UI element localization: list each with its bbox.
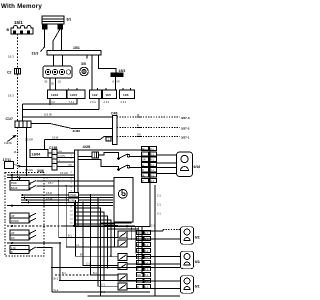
- svg-text:C-1: C-1: [145, 274, 150, 277]
- svg-text:3/5: 3/5: [81, 62, 86, 66]
- svg-text:6/19: 6/19: [195, 236, 200, 240]
- relay contact 6: [118, 283, 127, 290]
- wire 17/11 to C158 pin4: [21, 165, 52, 167]
- wire to motor 6/17 b: [127, 288, 181, 290]
- svg-text:0.5 GN: 0.5 GN: [25, 169, 33, 172]
- vertical drop x75.6: [76, 200, 118, 256]
- svg-text:C-1: C-1: [145, 262, 150, 265]
- vertical drop x58.7: [59, 181, 118, 238]
- switch top feeds: [11, 175, 13, 181]
- svg-text:13/64: 13/64: [32, 153, 41, 157]
- wire common y226: [7, 225, 62, 227]
- svg-text:11/6: 11/6: [123, 93, 129, 97]
- svg-text:3/27-3: 3/27-3: [181, 116, 190, 120]
- wire fuse 11/16 down: [49, 99, 51, 105]
- svg-text:R: R: [137, 244, 139, 247]
- svg-text:0.5GN: 0.5GN: [69, 194, 76, 197]
- svg-text:F14/30: F14/30: [4, 142, 12, 145]
- svg-text:C1/7: C1/7: [6, 117, 13, 121]
- junction fuse 11/16 drop: [49, 103, 51, 105]
- wires under inner rect: [101, 222, 132, 224]
- motor 6/19 body: [181, 227, 194, 245]
- module output label text: [142, 148, 155, 183]
- wire switch to fuse 11/16: [49, 78, 51, 90]
- vertical drop x66.2: [66, 186, 118, 247]
- fuse pin numbers: [49, 101, 127, 104]
- svg-text:2 3 4: 2 3 4: [90, 101, 96, 104]
- bus pin tick: [86, 55, 88, 59]
- bus bar 15/1: [47, 51, 101, 56]
- seat switch 3: [10, 230, 29, 240]
- dashed stub below C1/7: [17, 128, 19, 182]
- svg-text:B-1: B-1: [93, 272, 97, 275]
- switch 2 arm b: [30, 218, 37, 221]
- ignition switch contacts: [45, 69, 70, 74]
- switch 1 arm b: [30, 186, 37, 189]
- connector C1/7 body: [15, 121, 31, 128]
- wire label column boxes: [137, 231, 151, 289]
- wire C1/7 riser: [22, 104, 24, 121]
- svg-text:GN: GN: [59, 151, 63, 153]
- wire 15/3 to fuse 11/5: [115, 77, 117, 90]
- seat switch 2: [10, 213, 29, 223]
- fuse 11/6 top ticks: [122, 88, 124, 90]
- svg-text:16.3: 16.3: [8, 55, 14, 59]
- label column rail: [154, 185, 156, 296]
- svg-text:0.5 W: 0.5 W: [52, 137, 59, 140]
- motor 6/16 symbol: [181, 155, 188, 162]
- svg-text:R-1: R-1: [150, 169, 155, 172]
- svg-text:0.5GN: 0.5GN: [59, 156, 66, 158]
- relay contact 4: [118, 263, 127, 270]
- svg-text:C-1: C-1: [145, 232, 150, 235]
- wire bus to ignition switch pin1: [53, 55, 55, 66]
- dotted wire from 17/11: [14, 165, 22, 167]
- svg-text:G-1: G-1: [54, 288, 59, 292]
- junction dots on rows: [11, 174, 48, 179]
- svg-text:6/18: 6/18: [195, 260, 200, 264]
- svg-text:C-1: C-1: [145, 250, 150, 253]
- svg-text:C2: C2: [7, 71, 12, 75]
- wire row y109: [23, 108, 100, 110]
- relay contact 1: [118, 231, 127, 238]
- svg-text:11/15: 11/15: [70, 93, 77, 97]
- wire to motor 6/19 b: [127, 238, 181, 240]
- switch 3 arm b: [30, 235, 37, 238]
- svg-text:C-1: C-1: [157, 213, 162, 216]
- svg-text:R-1: R-1: [150, 148, 155, 151]
- svg-text:2 3 4: 2 3 4: [121, 101, 127, 104]
- wire code box b: [69, 198, 79, 203]
- motor 6/18 body: [181, 251, 194, 269]
- svg-text:6/17: 6/17: [195, 285, 200, 289]
- switch 1 wires right: [37, 180, 115, 182]
- connector 15/1 pins: [13, 31, 30, 35]
- svg-text:GN: GN: [137, 134, 141, 137]
- module inner routing: [78, 156, 92, 158]
- wire gauge labels mid rows: [46, 172, 68, 201]
- svg-text:C-1: C-1: [101, 283, 106, 286]
- switch 2 arm a: [30, 213, 37, 216]
- wire 13/64 to C158 pin2: [48, 156, 52, 158]
- wire bus to ignition switch pin2: [62, 55, 64, 66]
- vertical drop x83: [83, 202, 118, 265]
- relay contact 2: [118, 240, 127, 247]
- module inner connector: [92, 152, 99, 158]
- wire to motor 6/19 a: [127, 230, 163, 232]
- wire code box a: [69, 193, 79, 198]
- wire row A to C48: [23, 116, 113, 118]
- motor driver inner box: [114, 178, 133, 223]
- dashed wire 3/27-3: [117, 116, 180, 118]
- module output label boxes: [142, 147, 157, 183]
- svg-text:3/27-1: 3/27-1: [181, 135, 190, 139]
- svg-text:UP: UP: [11, 232, 15, 235]
- ignition key symbol: [80, 67, 89, 76]
- relay contact 5: [118, 274, 127, 281]
- svg-text:R-1: R-1: [150, 153, 155, 156]
- connector C2 body: [15, 69, 21, 75]
- wire bus row y177.6: [7, 177, 75, 179]
- wire code box on row C: [106, 137, 111, 141]
- svg-text:C-1: C-1: [86, 263, 91, 266]
- wire common y205.6: [7, 205, 113, 207]
- wire fuse 11/2 down: [98, 99, 100, 110]
- wire bus to connector 15/3: [98, 55, 116, 73]
- svg-text:31/86: 31/86: [73, 129, 81, 133]
- relay contact 3: [118, 254, 127, 261]
- svg-text:C-1: C-1: [145, 268, 150, 271]
- module pin numbers: [70, 155, 74, 225]
- svg-text:UP: UP: [11, 215, 15, 218]
- connector C158 bar: [52, 150, 57, 170]
- staircase junction dots: [100, 246, 116, 293]
- fuse 11/5: [103, 90, 117, 99]
- svg-text:C-1: C-1: [145, 244, 150, 247]
- svg-text:2 3 4: 2 3 4: [104, 101, 110, 104]
- svg-text:R: R: [137, 125, 139, 128]
- svg-text:BACK: BACK: [11, 187, 18, 190]
- wire to motor 6/18 b: [127, 263, 181, 265]
- switch enclosure dashed: [5, 173, 44, 257]
- svg-text:C-1: C-1: [145, 280, 150, 283]
- wire row B with ground tag: [31, 124, 112, 129]
- module pin bar: [77, 150, 79, 227]
- motor 6/17 body: [181, 276, 194, 294]
- wire C1/7 down: [26, 128, 28, 176]
- svg-text:R: R: [142, 169, 144, 172]
- svg-text:B-1: B-1: [80, 253, 84, 256]
- relay switch 1 inside module: [119, 154, 128, 159]
- wire C158 to module w3: [57, 161, 75, 163]
- wire to motor 6/18 a: [127, 256, 181, 258]
- svg-text:C-1: C-1: [75, 244, 80, 247]
- wire battery right terminal diagonal: [53, 29, 60, 51]
- fuse 11/6: [120, 90, 135, 99]
- svg-text:DN: DN: [11, 237, 15, 240]
- dashed wire 3/27-2: [117, 127, 180, 129]
- wire module to motor 6/16 c: [157, 167, 177, 169]
- wire C158 to module w2: [57, 156, 75, 158]
- arrow to F14/30: [8, 136, 16, 142]
- svg-text:0.5 GR: 0.5 GR: [25, 139, 33, 142]
- switch 4 arm: [30, 247, 37, 251]
- svg-text:GN: GN: [137, 274, 141, 277]
- svg-text:8/1: 8/1: [67, 18, 72, 22]
- wire module to motor 6/16 d: [157, 173, 177, 175]
- wire module to motor 6/16 a: [157, 154, 177, 156]
- wire dashed C2 down to C1/7: [17, 74, 19, 121]
- dashed wire y275 left: [55, 274, 91, 276]
- vertical drop x60: [59, 243, 61, 280]
- switch 1 arm a: [30, 181, 37, 184]
- battery terminal left: [43, 25, 48, 29]
- motor 6/19 symbol: [184, 229, 190, 235]
- wire to 13/64: [44, 140, 46, 150]
- pin ticks on rows: [22, 194, 24, 196]
- wire label column text: [137, 232, 149, 289]
- svg-text:C-1: C-1: [157, 204, 162, 207]
- svg-text:3/27-2: 3/27-2: [181, 126, 190, 130]
- svg-text:R-1: R-1: [150, 164, 155, 167]
- motor 6/17 symbol: [184, 278, 190, 284]
- svg-text:11/16: 11/16: [51, 93, 58, 97]
- svg-text:FWD: FWD: [11, 182, 17, 185]
- ignition switch body: [43, 66, 72, 78]
- vertical drop x90.6: [91, 195, 118, 275]
- wire dashed from 15/1 down: [17, 34, 19, 69]
- svg-text:GN: GN: [142, 159, 146, 162]
- wire bus row y175: [7, 174, 75, 176]
- svg-text:0.5 GN: 0.5 GN: [60, 172, 68, 175]
- svg-text:11/5: 11/5: [106, 93, 112, 97]
- tiny wire labels lower mesh: [62, 235, 106, 294]
- svg-text:GN: GN: [137, 232, 141, 235]
- battery 1/1 body: [42, 16, 64, 24]
- svg-text:DOWN: DOWN: [11, 220, 19, 223]
- wire row C: [45, 137, 113, 140]
- vertical drop x98: [98, 198, 118, 287]
- svg-text:16.3: 16.3: [14, 151, 19, 154]
- motor 6/16 body: [177, 152, 193, 177]
- battery terminal right: [58, 25, 63, 29]
- connector 15/1 body: [11, 26, 33, 35]
- relay 13/64: [30, 149, 48, 157]
- svg-text:15/1: 15/1: [14, 20, 23, 25]
- svg-text:16.3: 16.3: [8, 94, 14, 98]
- svg-text:4.3F: 4.3F: [11, 247, 16, 250]
- wire 13/64 to C158 pin1: [48, 152, 52, 154]
- wire C158 to module w4: [57, 165, 75, 167]
- dashed wire 3/27-1: [117, 136, 180, 138]
- C158 pin numbers: [53, 153, 55, 169]
- wire common y243: [7, 242, 60, 244]
- fuse 11/2: [90, 90, 102, 99]
- wire battery right terminal to bus: [61, 29, 63, 51]
- svg-text:B-1: B-1: [54, 277, 59, 281]
- fuse 11/5 top tick: [105, 88, 107, 90]
- connector C48 bar: [112, 116, 117, 145]
- fuse 11/15: [67, 90, 85, 99]
- connector 17/11 body: [5, 162, 14, 169]
- svg-text:C-1: C-1: [151, 224, 156, 227]
- motor symbol in module: [118, 189, 127, 198]
- module 4/29 body: [75, 150, 151, 227]
- svg-text:11/2: 11/2: [92, 93, 98, 97]
- svg-text:With Memory: With Memory: [1, 3, 42, 10]
- seat switch 1: [10, 181, 29, 191]
- wires lower left to right: [52, 267, 180, 269]
- wire to motor 6/17 a: [127, 280, 181, 282]
- fuse 11/16: [48, 90, 67, 99]
- svg-text:0.5 Y: 0.5 Y: [48, 182, 54, 185]
- svg-text:C48: C48: [111, 112, 117, 116]
- svg-text:0.5 R: 0.5 R: [113, 80, 121, 84]
- svg-text:B-1: B-1: [68, 235, 72, 238]
- module internal routing corners: [75, 208, 101, 292]
- svg-text:6/16: 6/16: [194, 165, 201, 169]
- fuse 11/15 top ticks: [68, 88, 70, 90]
- svg-text:C-1: C-1: [157, 195, 162, 198]
- wire module to motor 6/16 b: [157, 162, 177, 164]
- svg-text:R-1: R-1: [150, 159, 155, 162]
- motor 6/18 symbol: [184, 254, 190, 260]
- wire bus to fuse 11/2: [91, 55, 93, 90]
- svg-text:15/1: 15/1: [73, 46, 80, 50]
- connector 15/3 body: [111, 73, 123, 77]
- switch 3 arm a: [30, 230, 37, 233]
- switch 4 wire: [37, 248, 53, 293]
- svg-text:B-1: B-1: [62, 272, 66, 275]
- svg-text:15/3: 15/3: [119, 69, 126, 73]
- bottom bus: [88, 295, 181, 297]
- svg-text:31/3: 31/3: [32, 52, 39, 56]
- svg-text:0.5 W: 0.5 W: [44, 113, 52, 117]
- wire fuse 11/15 feed: [23, 99, 78, 105]
- svg-text:R-1: R-1: [150, 175, 155, 178]
- fuse 11/2 top tick: [97, 88, 99, 90]
- svg-text:4/29: 4/29: [83, 144, 92, 149]
- wire C158 to module w1: [57, 152, 75, 154]
- vertical drop x52 dot: [51, 267, 61, 282]
- seat switch 4: [10, 246, 29, 254]
- wire switch to fuse 11/16 b: [55, 78, 57, 90]
- wire rows from switch 1 bottom: [21, 194, 113, 196]
- svg-text:C-1: C-1: [145, 238, 150, 241]
- relay switch 2 inside module: [119, 165, 128, 170]
- wire battery left terminal to ground: [41, 29, 45, 52]
- svg-text:R-1: R-1: [150, 180, 155, 183]
- module bottom outputs right: [131, 227, 133, 241]
- svg-text:G: G: [142, 164, 144, 167]
